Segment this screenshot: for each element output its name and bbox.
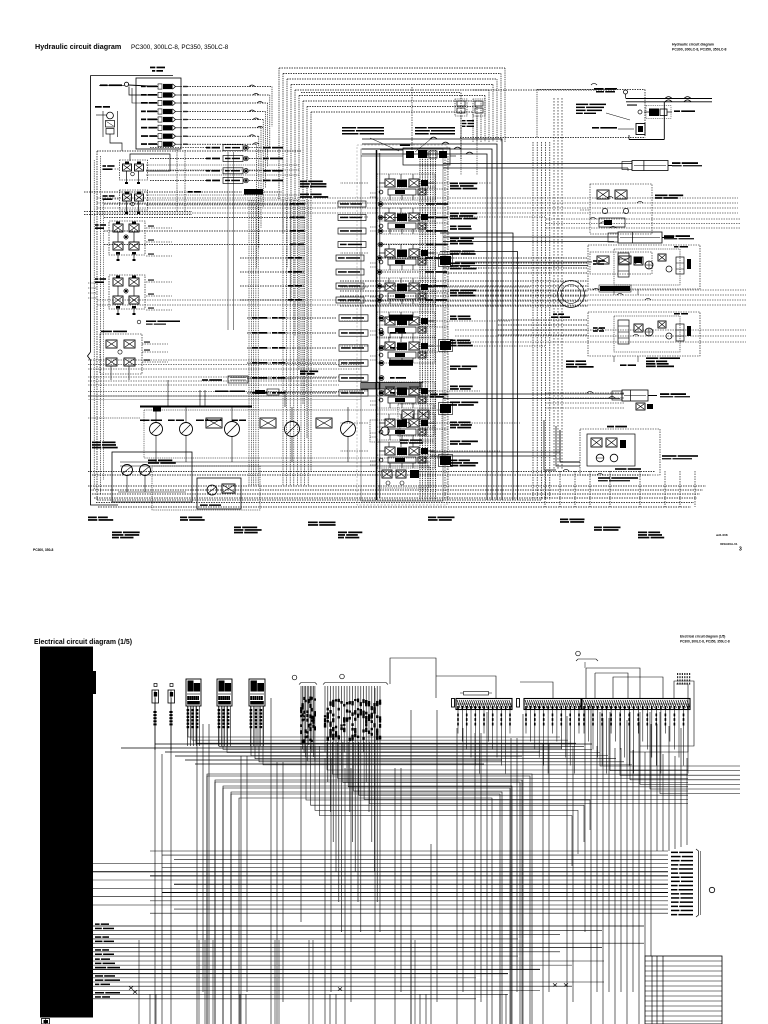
pump internal boxes [206, 418, 222, 428]
pump P4 [285, 422, 300, 437]
wire strip right down [640, 681, 694, 746]
wire right edge drop [698, 853, 700, 915]
PPC valve SELECT [103, 165, 107, 167]
main control valve outline [361, 149, 443, 501]
wire center vertical bundle dashed [532, 142, 534, 500]
wire bottom vertical bundles [138, 940, 140, 1024]
accumulator circle [624, 90, 628, 94]
wire verticals page2 [154, 690, 156, 1024]
bundle 1 label smudges [300, 710, 302, 713]
control valve spool 1 [377, 174, 435, 200]
wire arm cylinder feed [443, 393, 624, 395]
control valve spool 4 [377, 278, 435, 304]
control valve spool 9 [377, 442, 435, 468]
pilot rows mid group [240, 257, 304, 259]
wire top dashed bus bundle [279, 67, 505, 69]
solenoid valve rows [141, 86, 146, 88]
bottom label blocks [88, 517, 97, 519]
wire left horizontal bundle E [88, 376, 339, 378]
wire travel ppc leads [142, 343, 168, 345]
pump P5 [341, 422, 356, 437]
wire frame horizontal below solenoid [97, 150, 301, 152]
svg-text:Electrical circuit diagram (1/: Electrical circuit diagram (1/5) [34, 639, 132, 646]
oil level small parts [255, 390, 265, 394]
main control valve vertical bundle [419, 150, 421, 500]
bundle 2 label smudges [324, 723, 326, 727]
control valve hatched band [360, 383, 362, 390]
hydraulic oil small box [197, 478, 241, 509]
wire big nested rectangles [207, 776, 530, 1024]
wire outer dashed frame [96, 151, 98, 500]
right bus bracket [696, 849, 699, 917]
wire left horizontal bundle F [88, 391, 339, 393]
PPC valve L.H. [95, 278, 98, 280]
svg-text:Electrical circuit diagram (1/: Electrical circuit diagram (1/5) [680, 635, 725, 639]
wire bundle group 2 [324, 686, 326, 752]
main control valve main line [376, 150, 378, 500]
slow return valve labels [462, 120, 466, 121]
wire lower bus group B [93, 960, 604, 962]
svg-text:Hydraulic circuit diagram: Hydraulic circuit diagram [35, 42, 121, 51]
svg-text:aH1-008: aH1-008 [716, 533, 728, 537]
wire left dashed bus crossing [84, 211, 192, 213]
control valve spool 8 [377, 414, 435, 440]
wire LS line gray pair [88, 395, 440, 397]
wire ppc leads right [146, 227, 172, 229]
travel motor right [588, 245, 700, 289]
wire vertical pilot bundle mid [282, 200, 284, 486]
wire travel feeds [443, 257, 588, 259]
wire vertical pilot pair 2 [227, 152, 229, 330]
harness marker 3 [576, 651, 581, 656]
pump P3 [225, 422, 240, 437]
pump P2 [180, 423, 193, 436]
wire tank double line [626, 98, 712, 100]
shutoff valve [638, 110, 642, 114]
connector below panel [42, 1019, 50, 1024]
wire bucket cylinder feed [443, 163, 632, 165]
buffer valve label block [342, 127, 356, 129]
slow return valve B [473, 99, 485, 116]
return filter [592, 127, 599, 129]
wire swing motor feed [430, 451, 560, 453]
solenoid valve block outline [136, 78, 181, 149]
wire mid horizontal bundle D [88, 359, 361, 361]
wire mesh horizontals page2 [155, 743, 592, 745]
pilot rows lower group [252, 317, 257, 319]
wire solenoid block bottom drops [176, 150, 178, 212]
swing motor block [580, 429, 660, 475]
harness marker 2 [340, 674, 345, 679]
arm small cluster [636, 403, 645, 410]
wire corner cascade right-mid [600, 712, 740, 766]
wire right of valve dashed pair [444, 152, 446, 500]
connector plug large [249, 679, 265, 706]
PPC valve SELECT [103, 195, 108, 197]
travel labels below [566, 360, 574, 362]
hose break arcs [591, 83, 597, 85]
wire bundle group 1 [300, 686, 302, 745]
wire lower bus group A [93, 925, 644, 927]
arm cylinder [622, 390, 648, 401]
svg-text:PC300, 300LC-8, PC350, 350LC-8: PC300, 300LC-8, PC350, 350LC-8 [672, 48, 727, 52]
wire mid horizontal bundle B [455, 289, 746, 291]
main control valve top block [403, 148, 450, 165]
strip top wires [585, 668, 587, 698]
connector plug small [154, 684, 157, 687]
wire mid horizontal bundle A [97, 197, 738, 199]
left mid labels [92, 442, 101, 444]
wire outer boundary [90, 76, 92, 353]
connector plug small [170, 684, 173, 687]
EPC valve [95, 106, 102, 108]
wire bottom verticals [149, 994, 151, 1024]
harness marker 1 [292, 675, 297, 680]
solenoid lead hose breaks [249, 85, 255, 87]
mid right small bar [600, 286, 630, 291]
tank pipe [663, 102, 665, 140]
connector plug large [186, 679, 201, 706]
pump up drops [204, 390, 206, 407]
control valve spool 6 [377, 337, 435, 363]
boom holding valve cluster [590, 184, 652, 234]
strip1 lid [464, 692, 489, 696]
arm holding valve cluster [590, 252, 652, 274]
svg-text:PC300, 300LC-8, PC350, 350LC-8: PC300, 300LC-8, PC350, 350LC-8 [131, 44, 229, 51]
PPC valve travel [100, 334, 142, 374]
wire above strips left [390, 658, 436, 698]
swing brake release label [137, 320, 141, 324]
boom cylinder [618, 232, 662, 243]
pump ls labels row [140, 420, 150, 422]
wire swing feed [560, 430, 580, 462]
main pump shaft line [140, 406, 252, 408]
unloading valve label block [415, 127, 427, 129]
wire tank feed dashed [473, 89, 615, 91]
x splice marks [129, 986, 133, 989]
accumulator quickfit label [594, 88, 604, 90]
wire corner cascade left [306, 746, 590, 830]
wire solenoid leads to center [187, 86, 272, 88]
pump connect lines [120, 461, 430, 463]
control valve bottom cluster [377, 466, 429, 488]
terminal strip [456, 699, 512, 710]
wire connector cascade right [188, 706, 560, 737]
valve labels right column [450, 183, 458, 185]
svg-text:PC300, 300LC-8, PC350, 350LC-8: PC300, 300LC-8, PC350, 350LC-8 [680, 640, 730, 644]
travel motor left [588, 312, 700, 356]
wire bundle2 turns right [327, 742, 688, 770]
center swivel joint [558, 281, 585, 308]
wire arm cylinder leads [545, 392, 624, 394]
accumulator [124, 82, 128, 86]
solenoid valve block label [150, 67, 155, 69]
wire right bus bundle [150, 850, 668, 852]
pump P1 [150, 423, 163, 436]
wire mid dashed bundle right A2 [546, 218, 740, 220]
slow return valve A [455, 99, 467, 116]
select cluster outline box [130, 154, 170, 171]
ls check labels [300, 371, 308, 373]
wire pump feed to solenoid block [129, 87, 155, 96]
wire bottom bus bundle [88, 485, 706, 487]
bucket cylinder [632, 161, 668, 171]
svg-text:3: 3 [739, 547, 742, 553]
page2 black panel [40, 647, 93, 1018]
svg-text:Hydraulic circuit diagram: Hydraulic circuit diagram [672, 43, 714, 47]
wire top bus right corner drops [504, 68, 506, 142]
wire arm holding feed pair [455, 261, 592, 263]
terminal strip [524, 699, 581, 710]
svg-text:00SG00A-01: 00SG00A-01 [720, 542, 738, 546]
wire bottom bus verticals [544, 471, 546, 507]
wire mid horizontal bundle C [455, 329, 746, 331]
pilot rows upper group [104, 203, 306, 205]
pilot rows top group [150, 147, 206, 149]
main valve dashed region top [301, 92, 461, 94]
svg-text:PC300, 350-8: PC300, 350-8 [33, 548, 54, 552]
bypass check valve label [576, 104, 588, 106]
wire nested corners bottom [207, 774, 532, 1024]
self pressure reducing valve [398, 404, 434, 436]
control valve spool 7 [377, 382, 435, 408]
control valve spool 2 [377, 208, 435, 234]
terminal strip [582, 699, 690, 710]
wire top bus corner drops into mid bundle [278, 68, 280, 200]
strip top labels [677, 673, 678, 675]
wire main pump discharge pipes [362, 139, 502, 500]
wire vertical pilot bundle left [248, 200, 250, 486]
left lower black bits [153, 406, 161, 412]
control valve spool 5 [377, 312, 435, 338]
wire right vertical bundle [553, 98, 555, 470]
wire boom cylinder feed [443, 236, 618, 238]
labels left of control valve upper [300, 181, 307, 183]
terminal table bottom right [645, 956, 722, 1024]
wire return bus dashed pair [88, 471, 655, 473]
wire select cluster leads [146, 164, 300, 166]
control valve spool 3 [377, 244, 435, 270]
wire discharge pipes lower pair [440, 233, 513, 500]
right bus labels [671, 852, 678, 854]
connector plug large [217, 679, 232, 706]
strip end ticks [452, 699, 455, 708]
small accumulator label [627, 104, 637, 105]
wire travel crossover bundle [340, 280, 588, 282]
pilot black bar row [84, 191, 242, 193]
main pump assembly frame [144, 410, 442, 458]
PPC valve R.H. [95, 224, 99, 226]
valve right attachments [440, 256, 451, 265]
right marker circle [709, 887, 714, 892]
bypass inner box [152, 466, 260, 510]
air breather [228, 376, 248, 383]
hydraulic tank region dashed boundary [537, 89, 645, 91]
suction strainer box [112, 452, 192, 502]
swing right labels [662, 455, 677, 457]
